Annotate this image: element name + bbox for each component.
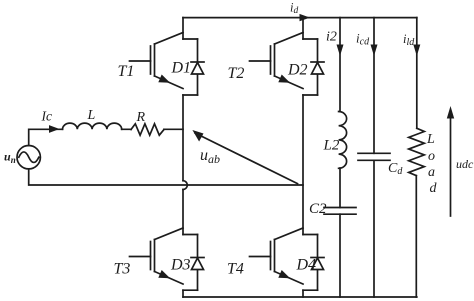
wire right leg lower stub (302, 290, 304, 297)
svg-text:L: L (87, 108, 96, 123)
arrow current i2 (337, 45, 344, 57)
svg-text:C2: C2 (309, 201, 327, 217)
wire load branch upper (416, 18, 418, 129)
svg-text:Ic: Ic (41, 109, 53, 124)
capacitor Cd (358, 153, 390, 160)
wire bottom DC rail (183, 296, 417, 298)
svg-text:id: id (290, 1, 298, 17)
svg-text:o: o (428, 149, 435, 164)
svg-text:d: d (430, 181, 438, 196)
svg-text:un: un (4, 150, 16, 166)
wire left leg lower stub (182, 290, 184, 297)
wire left leg below hop (182, 190, 184, 235)
AC source u_n (17, 146, 40, 169)
arrow current i_ld (413, 45, 420, 57)
wire hop over source return (183, 181, 187, 190)
svg-text:T3: T3 (114, 261, 131, 278)
svg-text:L2: L2 (323, 138, 340, 154)
svg-text:L: L (426, 132, 435, 147)
svg-text:a: a (428, 165, 435, 180)
svg-text:D2: D2 (287, 62, 308, 79)
transistor T4 (IGBT) (250, 228, 318, 290)
svg-text:D1: D1 (171, 60, 192, 77)
wire source bottom to node b (29, 169, 303, 185)
transistor T1 (IGBT) (130, 33, 198, 96)
svg-text:i2: i2 (326, 30, 337, 45)
wire right leg middle (T2 to node b to T4) (302, 95, 304, 235)
wire load to bottom rail (415, 176, 417, 297)
wire L2 to C2 (339, 168, 341, 208)
resistor R (131, 124, 164, 135)
svg-text:T2: T2 (228, 65, 245, 82)
wire source top to node a (29, 129, 183, 145)
transistor T2 (IGBT) (250, 33, 318, 96)
svg-text:T1: T1 (118, 63, 135, 80)
wire right leg upper stub (302, 18, 304, 39)
wire filter branch 1 upper (339, 18, 341, 112)
svg-text:T4: T4 (227, 261, 244, 278)
svg-text:uab: uab (200, 147, 220, 166)
diode D2 (311, 39, 324, 95)
svg-text:D4: D4 (296, 257, 317, 274)
wire Cd to bottom rail (373, 160, 375, 297)
svg-text:Cd: Cd (388, 161, 403, 177)
diode D1 (191, 39, 204, 95)
inductor L (63, 123, 122, 129)
wire filter branch 2 upper (373, 18, 375, 154)
wire C2 to bottom rail (339, 214, 341, 297)
svg-text:ild: ild (403, 32, 415, 48)
label Load (426, 132, 438, 196)
arrow current i_d (300, 14, 311, 21)
capacitor C2 (324, 208, 356, 215)
resistor Load (409, 128, 425, 175)
arrow current i_cd (371, 45, 378, 57)
wire left leg middle (node a to hop to T3) (182, 95, 184, 181)
svg-text:D3: D3 (170, 257, 191, 274)
transistor T3 (IGBT) (130, 228, 198, 290)
diode D3 (191, 235, 204, 291)
svg-text:icd: icd (356, 31, 370, 48)
arrow voltage u_ab (192, 130, 297, 184)
arrow voltage u_dc (447, 106, 454, 216)
wire top DC rail (183, 17, 417, 19)
svg-text:udc: udc (456, 157, 474, 171)
diode D4 (311, 235, 324, 291)
inductor L2 (339, 112, 347, 169)
arrow current Ic (49, 125, 60, 133)
wire left leg upper stub (182, 18, 184, 39)
svg-text:R: R (136, 110, 146, 125)
